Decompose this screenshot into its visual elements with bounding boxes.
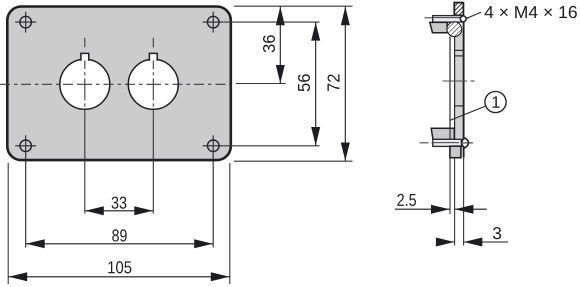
corner hole bottom-left [15, 135, 36, 247]
front face line over bottom clamp [449, 128, 451, 139]
big hole 2 fill [128, 59, 178, 109]
top section block (hatched) [454, 3, 463, 16]
hole H1 vertical centerline [84, 38, 86, 214]
extension line front face (2.5) [449, 158, 451, 214]
bar inner line hole bottom [455, 105, 464, 107]
hole H2 vertical centerline [152, 38, 154, 214]
label 4xM4x16 leader [467, 12, 481, 18]
bottom end block [450, 146, 461, 158]
dimension 2.5 [395, 190, 487, 214]
bar inner line hole top b [455, 55, 464, 57]
bottom screw dome tip [462, 138, 473, 148]
svg-text:2.5: 2.5 [397, 190, 417, 210]
big hole 1 outline [60, 53, 110, 109]
extension line bottom hole row [224, 145, 320, 147]
svg-text:89: 89 [112, 225, 128, 245]
corner hole top-right [203, 12, 224, 33]
dimension 56 [294, 22, 320, 146]
big hole 2 outline [128, 53, 178, 109]
dimension 105 [8, 257, 230, 281]
big hole 1 fill [60, 59, 110, 109]
extension line plate top (right side) [234, 5, 353, 7]
svg-text:1: 1 [491, 94, 500, 112]
dimension 89 [26, 225, 214, 248]
svg-text:105: 105 [107, 257, 132, 277]
bottom clamp claw [431, 128, 454, 139]
bottom screw shank [433, 139, 462, 146]
callout 1 leader [450, 106, 486, 120]
top clamp claw [430, 22, 447, 32]
extension line plate front (2.5/3) [454, 158, 456, 246]
dimension 3 [436, 223, 508, 246]
corner hole top-left [15, 12, 36, 33]
hole row centerline (side view) [443, 80, 475, 82]
corner hole bottom-right [203, 135, 224, 247]
plate front view [7, 7, 231, 161]
top screw dome tip [460, 16, 466, 23]
svg-text:36: 36 [259, 35, 279, 54]
plate horizontal centerline [0, 83, 231, 85]
callout 1 circle [485, 91, 506, 112]
top screw M4 shank [433, 16, 462, 23]
extension line plate left edge (for 105) [7, 163, 9, 284]
extension line top hole row [224, 21, 320, 23]
front face line (clips plane) [449, 37, 451, 129]
extension line hole center row (for 36) [236, 83, 286, 85]
dimension 36 [259, 6, 285, 83]
svg-text:3: 3 [492, 223, 502, 243]
dimension 72 [324, 6, 350, 161]
bar inner line hole top a [455, 49, 464, 51]
screw bottom centerline [420, 142, 474, 144]
dimension 33 [85, 193, 154, 216]
svg-text:56: 56 [294, 73, 314, 92]
svg-text:33: 33 [111, 193, 127, 213]
extension line plate bottom (right side) [234, 160, 353, 162]
extension line plate back (3) [463, 158, 465, 246]
svg-text:72: 72 [324, 73, 344, 92]
screw top centerline [425, 17, 472, 19]
extension line plate right edge (for 105) [229, 163, 231, 284]
side plate bar [455, 21, 464, 158]
top clamp boss (hatched circle) [447, 22, 462, 37]
svg-text:4 × M4 × 16: 4 × M4 × 16 [484, 2, 578, 22]
